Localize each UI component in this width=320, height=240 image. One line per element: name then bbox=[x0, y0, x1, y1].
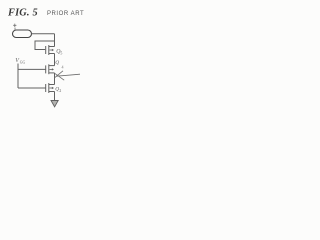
battery terminal oval bbox=[13, 30, 32, 38]
wire supply horizontal bbox=[32, 33, 55, 35]
svg-text:4: 4 bbox=[62, 65, 64, 70]
plus polarity mark bbox=[13, 24, 16, 30]
svg-text:2: 2 bbox=[59, 88, 61, 93]
wire Q5 gate-drain loop bbox=[35, 41, 55, 50]
wire input vertical bbox=[17, 64, 19, 89]
wire Q2 source to ground bbox=[54, 92, 56, 101]
svg-text:Q: Q bbox=[55, 60, 59, 66]
wire Q4 gate lead bbox=[18, 68, 46, 70]
svg-text:5: 5 bbox=[60, 51, 62, 56]
wire Q5 source to Q4 drain bbox=[54, 54, 56, 66]
wire Q2 gate lead bbox=[18, 87, 46, 89]
transistor Q5 bbox=[46, 45, 55, 55]
wire Q4 source to Q2 drain bbox=[54, 73, 56, 85]
transistor Q4 bbox=[46, 64, 55, 74]
svg-text:FIG. 5: FIG. 5 bbox=[7, 8, 38, 19]
output arrow bbox=[55, 71, 80, 80]
wire supply vertical to Q5 drain bbox=[54, 34, 56, 47]
ground bbox=[51, 101, 58, 107]
transistor Q2 bbox=[46, 83, 55, 93]
svg-text:PRIOR ART: PRIOR ART bbox=[47, 11, 84, 17]
svg-text:GG: GG bbox=[20, 61, 26, 65]
